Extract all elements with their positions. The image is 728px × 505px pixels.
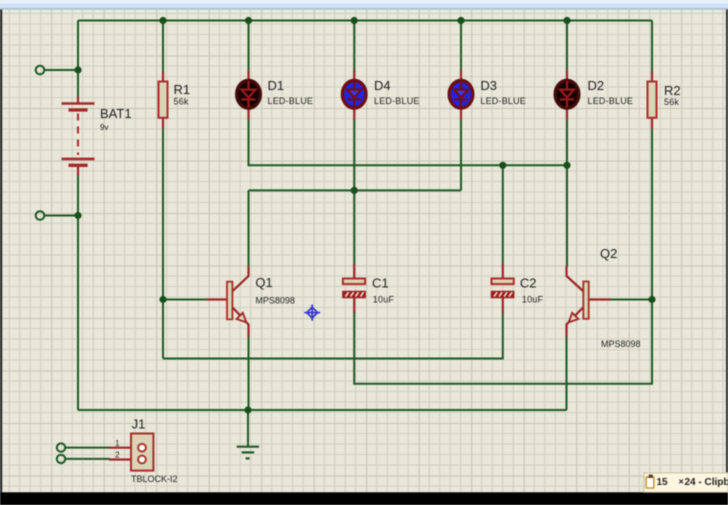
- svg-text:C1: C1: [372, 276, 389, 291]
- svg-text:9v: 9v: [100, 123, 108, 132]
- terminal circle 1: [57, 443, 65, 451]
- pin 2 lead: [109, 458, 138, 460]
- window chrome: bottom black bar: [0, 492, 728, 505]
- wire: battery top vertical: [77, 21, 79, 97]
- svg-text:BAT1: BAT1: [100, 106, 132, 121]
- svg-text:C2: C2: [520, 276, 537, 291]
- wire: D3 cathode vertical: [460, 119, 462, 190]
- wire: D4 cathode down through Q1 collector node to C1: [353, 119, 355, 265]
- wire: D4 anode vertical: [353, 21, 355, 72]
- svg-text:D4: D4: [374, 78, 391, 93]
- emitter arrow: [237, 313, 247, 323]
- window chrome: top blue bar: [0, 0, 728, 10]
- svg-text:Q2: Q2: [600, 246, 617, 261]
- wire: Q2 emitter to ground rail: [566, 336, 568, 410]
- collector lead: [567, 266, 584, 291]
- clipboard tooltip: [644, 473, 728, 492]
- wire: D3 anode vertical: [460, 21, 462, 72]
- pin 1 lead: [109, 447, 138, 449]
- pin top: [77, 97, 79, 104]
- terminal (input) bottom circle: [36, 211, 45, 220]
- LED D1 (off): [237, 70, 313, 120]
- wire: terminal 1 to J1: [65, 447, 110, 449]
- svg-text:10uF: 10uF: [373, 295, 395, 305]
- svg-text:LED-BLUE: LED-BLUE: [480, 96, 526, 106]
- emitter lead: [233, 308, 249, 338]
- wire: R2 top: [651, 21, 653, 73]
- wire: cross-coupling wire C2 bottom to Q1 base (y=358.5): [163, 312, 503, 359]
- LED D3 (on): [449, 70, 526, 120]
- junction node dots: [159, 17, 166, 24]
- svg-text:D3: D3: [480, 78, 497, 93]
- wire: ground stem: [247, 410, 249, 447]
- pad 2: [138, 456, 146, 464]
- svg-text:1: 1: [115, 439, 120, 448]
- svg-text:15: 15: [657, 477, 669, 488]
- wire: D2 cathode vertical: [566, 119, 568, 165]
- svg-text:24 - Clipboar: 24 - Clipboar: [685, 477, 728, 488]
- svg-text:LED-BLUE: LED-BLUE: [374, 96, 420, 106]
- terminal (input) top circle: [36, 66, 45, 75]
- window chrome: right dark strip: [726, 10, 728, 505]
- wire: Q1 collector vertical: [248, 190, 250, 267]
- transistor Q2 MPS8098 (mirrored): [567, 246, 641, 349]
- wire: terminal 2 to J1: [65, 458, 110, 460]
- pad 1: [138, 444, 146, 452]
- origin marker (blue diamond): [304, 305, 320, 321]
- plate short bottom: [69, 164, 88, 167]
- wire: R1 top: [162, 21, 164, 73]
- body: [131, 434, 153, 471]
- emitter arrow: [569, 313, 579, 323]
- svg-text:TBLOCK-I2: TBLOCK-I2: [131, 474, 178, 484]
- svg-text:R1: R1: [174, 82, 191, 97]
- pin bottom: [77, 167, 79, 176]
- wire: D1 cathode down and right (Q2 collector node): [249, 119, 568, 165]
- ground symbol: [237, 447, 259, 459]
- svg-text:J1: J1: [132, 417, 146, 432]
- base lead: [206, 298, 227, 300]
- terminal circle 2: [57, 455, 65, 463]
- wire: Q2 base node horizontal: [609, 299, 652, 301]
- capacitor C1: [343, 264, 395, 313]
- wire: Q2 collector vertical: [566, 165, 568, 267]
- resistor R1: [159, 71, 191, 129]
- plate long top: [62, 102, 95, 105]
- svg-text:×: ×: [679, 477, 684, 487]
- svg-text:LED-BLUE: LED-BLUE: [268, 96, 314, 106]
- svg-text:R2: R2: [664, 83, 681, 98]
- svg-text:Q1: Q1: [255, 275, 272, 290]
- wire: C1 bottom cross-coupling to R2/Q2 base (y=383.8): [354, 300, 652, 384]
- base lead: [589, 298, 610, 300]
- dashed cell link: [77, 114, 79, 156]
- emitter lead: [567, 308, 584, 338]
- connector J1 TBLOCK-I2: [57, 417, 178, 484]
- svg-text:10uF: 10uF: [522, 295, 544, 305]
- svg-text:D2: D2: [588, 78, 605, 93]
- wire: R2 bottom to Q2 base node: [651, 128, 653, 300]
- base bar: [583, 282, 588, 319]
- svg-text:LED-BLUE: LED-BLUE: [588, 96, 634, 106]
- wire: ground rail: [78, 409, 567, 411]
- plate short top: [69, 108, 88, 111]
- svg-text:D1: D1: [268, 78, 285, 93]
- collector lead: [233, 266, 249, 291]
- wire: D2 anode vertical: [566, 21, 568, 72]
- battery BAT1: [62, 97, 132, 177]
- svg-text:MPS8098: MPS8098: [601, 339, 641, 349]
- window chrome: left dark strip: [0, 10, 2, 505]
- wire: top terminal to battery column: [44, 69, 78, 71]
- base bar: [227, 282, 232, 320]
- svg-text:2: 2: [115, 450, 120, 459]
- wire: Q1 collector node horizontal (y=190.4): [249, 189, 462, 191]
- wire: Q1 base node horizontal (R1/C2 to Q1): [163, 299, 207, 301]
- wire: top +V rail: [78, 20, 652, 22]
- wire: D1 anode vertical: [248, 21, 250, 72]
- resistor R2: [648, 71, 681, 129]
- wire: Q1 emitter to ground rail: [248, 336, 250, 410]
- wire: battery bottom vertical down to ground rail: [77, 176, 79, 410]
- capacitor C2: [492, 264, 544, 313]
- wire: bottom terminal to battery column: [44, 215, 78, 217]
- plate long bottom: [62, 158, 95, 161]
- svg-text:56k: 56k: [174, 97, 189, 107]
- cursor triangle: [668, 488, 681, 493]
- wire: C2 top connection from node: [502, 165, 504, 265]
- transistor Q1 MPS8098: [206, 266, 295, 337]
- wire: R1 bottom to Q1 base node and down: [162, 128, 164, 359]
- svg-text:56k: 56k: [664, 97, 679, 107]
- LED D2 (off): [555, 70, 633, 120]
- LED D4 (on): [342, 70, 419, 120]
- svg-text:MPS8098: MPS8098: [255, 296, 295, 306]
